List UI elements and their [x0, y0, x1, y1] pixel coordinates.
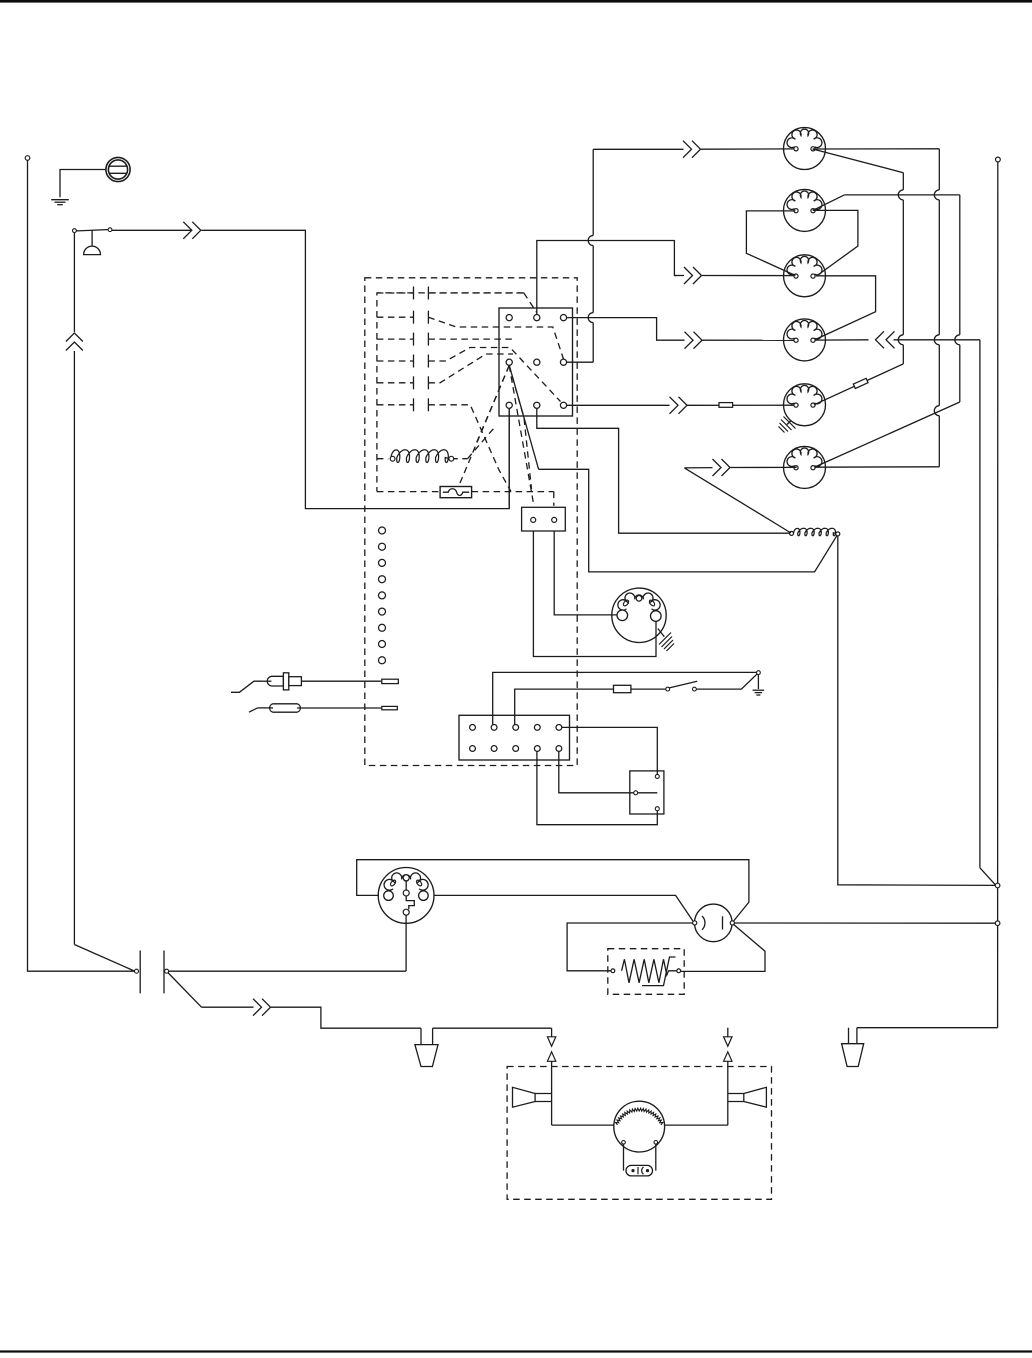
wire lamp1 to vertical bus x939 [813, 148, 940, 150]
node J1-b [165, 969, 169, 973]
node BP1-right [730, 921, 734, 925]
lamp LP4 [784, 319, 826, 361]
horn enclosure (dashed) [507, 1067, 771, 1200]
node BP1-left [693, 921, 697, 925]
ballast resistor R1 (dashed box) [608, 949, 684, 995]
row5 wire [428, 354, 513, 383]
pin CB1-23 [560, 359, 566, 365]
wire bus riser x=593 to lamp1 [592, 149, 594, 235]
wire CB3 r2p4 to relay RB1 bottom [537, 751, 657, 825]
wire pin B1 harness to coil [539, 469, 838, 572]
pin CB2-1 [531, 517, 536, 522]
secondary coil L3 [793, 528, 836, 535]
magneto MG1 [378, 868, 434, 924]
connector chevron CV6 [713, 459, 722, 476]
right trunk x997 [996, 157, 1001, 162]
wire BP1 to ballast [681, 925, 765, 972]
wire indicator to ground [60, 170, 106, 198]
wire coil to node N1 [838, 536, 995, 886]
wire BP1 to N2 [734, 922, 995, 924]
wire bottom right to horn connector [857, 1027, 998, 1029]
pin CB3-15 [556, 725, 562, 731]
switch S3 blade [668, 681, 698, 688]
wire lamp6 feed diag to coil [684, 468, 791, 533]
node J1-a [135, 969, 139, 973]
inner switch housing (dashed) [377, 293, 524, 492]
ground G4 chassis at lamp5 [787, 421, 791, 425]
spark plug P2 [249, 708, 258, 712]
node RB1-mid [634, 791, 638, 795]
connector chevron CV4 [685, 332, 694, 349]
wire bus x960 to lamp6 [815, 402, 960, 467]
wire CB3 r2p5 to relay RB1 mid [559, 751, 634, 793]
wire CB3 r1p3 to fuse F2 [515, 689, 614, 725]
wire magneto to breaker circle [434, 895, 694, 922]
switch wiper dashed fan d [509, 366, 533, 504]
wire diag to node N1 [980, 868, 996, 886]
wire magneto down to J1 bus [405, 915, 407, 971]
wire lamp2 right to lamp3 [813, 210, 858, 275]
pin CB1-22 [534, 359, 540, 365]
ignition coil pickup dashed diag [468, 428, 495, 459]
connector chevron CV1 [183, 222, 192, 239]
pin CB1-12 [534, 315, 540, 321]
wire lamp1 diag to bus x903 [813, 149, 904, 173]
wire diag to breaker [74, 945, 134, 972]
connector chevron CV2 [683, 141, 692, 158]
node S1-b [108, 228, 112, 232]
fuse F2 [614, 685, 631, 692]
switch contact row 2 [377, 316, 414, 318]
lamp LP6 [784, 446, 826, 488]
connector chevron CV3 [684, 267, 693, 284]
wire J1 diag branch [168, 973, 202, 1008]
node kill-ground [757, 671, 761, 675]
terminal P1-t [382, 679, 399, 683]
horn HR1 (right) [744, 1087, 767, 1107]
lamp LP1 [784, 128, 826, 170]
lamp LP5 [784, 384, 826, 426]
node R1-left [611, 969, 615, 973]
wire CB3 r1p5 to relay RB1 top [561, 727, 657, 774]
pin CB3-25 [556, 746, 562, 752]
row1 wire to pin A2 [428, 292, 523, 294]
pin CB3-11 [470, 725, 476, 731]
wire J1 to magneto [169, 970, 406, 972]
pin CB3-21 [470, 746, 476, 752]
switch contact row 6 [377, 404, 414, 406]
pin CB1-31 [506, 402, 512, 408]
pin CB1-13 [560, 315, 566, 321]
connector chevron CV8 (left) [876, 331, 885, 348]
node top-left [25, 156, 30, 161]
tail lamp socket LS1 [612, 588, 666, 642]
connector chevron CV7 [253, 999, 262, 1016]
solid diag pin B1 to harness [509, 365, 538, 469]
motor capacitor capsule [626, 1165, 653, 1176]
wire pin C2 to lamp socket feed [537, 408, 792, 533]
vertical bus x903 [902, 173, 904, 190]
pin CB2-2 [552, 517, 557, 522]
switch wiper dashed fan a [455, 366, 509, 496]
lamp LP3 [784, 255, 826, 297]
terminal P2-t [382, 706, 398, 709]
node RB1-bottom [655, 807, 659, 811]
switch wiper dashed fan c [509, 366, 531, 490]
terminal column (9 sockets) [379, 527, 386, 534]
pin CB3-12 [491, 725, 497, 731]
ignition switch housing (dashed) [365, 278, 577, 766]
connector split arrows at x727 [727, 1028, 729, 1037]
lamp LP2 [784, 189, 826, 231]
pin CB3-24 [534, 746, 540, 752]
primary winding coil L2 [391, 450, 449, 463]
wire block CB2 pin2 to tail lamp left [554, 522, 617, 615]
pin CB1-11 [506, 315, 512, 321]
node R1-right [677, 969, 681, 973]
fuse F1 [440, 487, 472, 498]
connector chevron up CV9 [66, 333, 83, 342]
pin CB3-23 [513, 746, 519, 752]
wire lamp4 to corner bus x980 [815, 339, 869, 341]
ground G2 [757, 675, 759, 690]
wire bus to lamp6 [814, 466, 939, 468]
wire horn bus to motor [552, 1124, 614, 1126]
wire F2 to switch S3 [631, 688, 666, 690]
switch wiper dashed fan b [476, 366, 509, 445]
row2 wire to pin B3 [428, 317, 563, 359]
pin CB3-13 [513, 725, 519, 731]
node S3-b [693, 687, 697, 691]
ground G1 [51, 199, 69, 201]
plug funnel PF1 [420, 1028, 422, 1044]
node N2 [995, 921, 1000, 926]
resistor tap [642, 957, 676, 986]
resistor R1 [622, 959, 677, 983]
switch contact row 1 [377, 292, 414, 294]
vertical bus x960 [959, 195, 961, 335]
horn HN1 dome [84, 246, 101, 254]
relay block RB1 [630, 771, 664, 814]
wire lamp3 to lamp4 [816, 276, 876, 339]
wire pin A3 to lamp4 [566, 318, 685, 341]
wire bus x903 to lamp5 (inline connector CN2) [814, 364, 903, 405]
ground G3 chassis [658, 629, 665, 637]
horn HN1 stem [91, 230, 93, 246]
node S3-a [666, 687, 670, 691]
wire S3 to ground node [696, 673, 758, 689]
motor brush pins [622, 1141, 626, 1145]
wire left vertical trunk [28, 160, 135, 971]
wire S1 down-left branch [73, 233, 75, 333]
connector bars J1 [139, 951, 141, 994]
pin CB1-33 [560, 402, 566, 408]
plug funnel PF2 [848, 1028, 850, 1044]
pin CB1-32 [534, 402, 540, 408]
pin CB1-21 [506, 359, 512, 365]
wire CB3 r1p2 to kill switch [493, 672, 757, 725]
pin CB3-22 [491, 746, 497, 752]
wire lamp2 left loop to lamp3 [746, 211, 795, 276]
connector chevron CV5 [670, 397, 679, 414]
breaker points BP1 [695, 904, 733, 942]
row3 wire into block [428, 338, 513, 340]
wire pin C1 riser [508, 408, 510, 508]
node RB1-top [655, 774, 659, 778]
horn switch S1 blade [74, 230, 110, 232]
node S1-a [73, 229, 77, 233]
connector block CB2 [522, 507, 566, 531]
connector block CB1 [499, 308, 573, 416]
wire pin A2 up and over to lamp3 [537, 241, 677, 315]
switch contact row 5 [377, 382, 414, 384]
page footer rule [0, 1350, 1032, 1352]
wire funnel PF1 to connector split [433, 1027, 552, 1029]
indicator lamp L1 [106, 157, 130, 181]
switch contact row 4 [377, 360, 414, 362]
horn motor M1 [614, 1101, 665, 1152]
pin CB3-14 [534, 725, 540, 731]
switch contact row 3 [377, 338, 414, 340]
wire S1 to ignition-switch column [112, 229, 191, 231]
inline connector CN1 [719, 403, 733, 408]
node N1 [995, 883, 1000, 888]
row6 wire to fuse area [428, 405, 511, 492]
page header rule [0, 0, 1032, 3]
wire relay left feed [567, 923, 693, 971]
wire loop over magneto [357, 860, 749, 922]
wire lamp2 diag to bus x960 [813, 195, 845, 211]
connector split arrows at x551 [551, 1028, 553, 1037]
connector block CB3 [459, 715, 570, 760]
row4 wire to pin C3 [428, 348, 560, 402]
spark plug P1 [231, 681, 262, 692]
wire pin C3 to lamp5 [566, 404, 670, 406]
vertical bus x939 [938, 149, 940, 190]
wire block CB2 pin1 to tail lamp right [533, 522, 656, 656]
horn HL1 (left) [513, 1087, 536, 1107]
